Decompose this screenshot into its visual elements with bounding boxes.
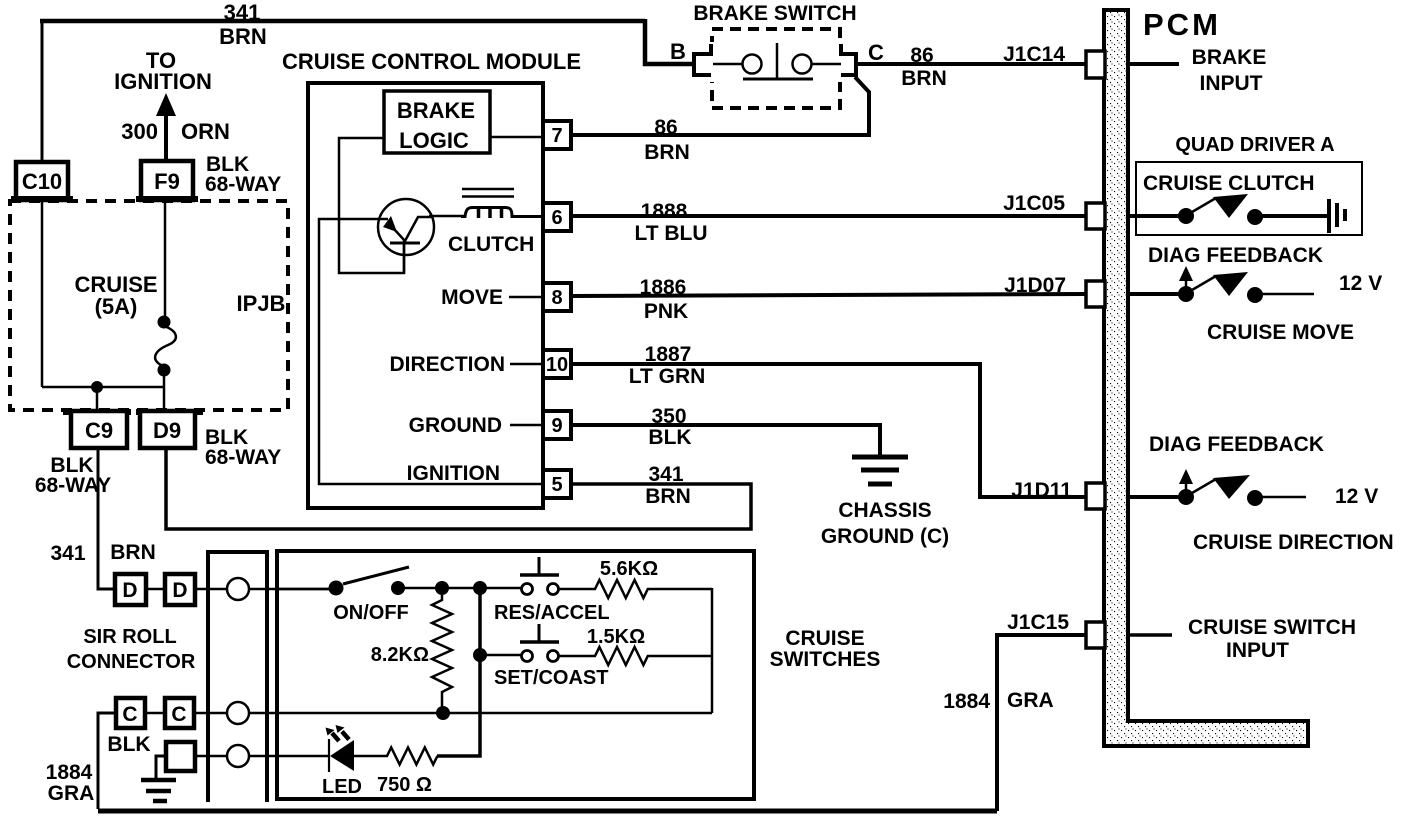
svg-text:1888: 1888 (641, 200, 688, 223)
svg-text:DIAG FEEDBACK: DIAG FEEDBACK (1149, 433, 1324, 456)
svg-text:F9: F9 (154, 169, 180, 194)
pin 5 (407, 462, 571, 498)
svg-text:12 V: 12 V (1335, 485, 1378, 508)
connector C9 (35, 409, 131, 497)
svg-text:750 Ω: 750 Ω (377, 774, 432, 796)
resistor 750 ohm (354, 748, 437, 797)
svg-text:GRA: GRA (1007, 689, 1054, 712)
svg-text:5: 5 (551, 474, 562, 496)
fuse block connector F9 (136, 153, 281, 202)
svg-text:D9: D9 (153, 418, 181, 443)
white gap under C bracket (832, 42, 845, 82)
svg-text:341: 341 (50, 542, 85, 565)
svg-text:PCM: PCM (1143, 7, 1221, 42)
svg-text:5.6KΩ: 5.6KΩ (600, 558, 658, 580)
wire SET branch down to LED row (437, 655, 480, 756)
svg-text:LT BLU: LT BLU (634, 222, 707, 245)
svg-text:MOVE: MOVE (441, 286, 503, 309)
label 1884 GRA bottom left (46, 761, 95, 805)
svg-text:D: D (172, 579, 187, 602)
svg-text:SIR ROLL: SIR ROLL (83, 626, 176, 648)
driver cruise clutch (1128, 194, 1327, 225)
wire 1887 LT GRN pin10 to J1D11 (571, 343, 1086, 502)
node dot at 8.2K top (435, 581, 449, 595)
svg-text:350: 350 (651, 405, 686, 428)
svg-text:6: 6 (551, 207, 562, 229)
svg-text:J1D11: J1D11 (1011, 479, 1072, 502)
svg-text:CRUISE: CRUISE (785, 627, 864, 650)
svg-text:86: 86 (910, 44, 933, 67)
svg-text:CRUISE CLUTCH: CRUISE CLUTCH (1143, 172, 1315, 195)
wire 86 BRN from C to J1C14 (858, 43, 1086, 90)
pin 8 (441, 283, 571, 311)
svg-text:(5A): (5A) (95, 294, 138, 319)
svg-text:9: 9 (551, 415, 562, 437)
node dot at RES branch (473, 581, 487, 595)
connector J1C15 (1086, 622, 1105, 648)
driver cruise direction with diag feedback (1128, 433, 1394, 554)
svg-text:J1C14: J1C14 (1003, 43, 1065, 66)
connector C-C pair (107, 698, 194, 756)
transistor Q1 (378, 199, 434, 273)
wire cruise switch input (1128, 616, 1356, 662)
wire F9 to fuse (164, 200, 167, 318)
quad driver A box (1136, 134, 1362, 235)
pin 7 (543, 121, 571, 149)
svg-text:SWITCHES: SWITCHES (770, 648, 881, 671)
PCM housing bar (1104, 7, 1308, 746)
svg-text:68-WAY: 68-WAY (205, 446, 281, 469)
ground at cruise clutch driver (1329, 199, 1345, 233)
svg-text:GROUND (C): GROUND (C) (821, 525, 949, 548)
resistor 8.2K ohm (371, 595, 452, 711)
wire 86 BRN from C to pin 7 (571, 77, 869, 164)
svg-text:BRAKE: BRAKE (397, 98, 475, 123)
wire brake logic to pin 7 (490, 136, 543, 139)
svg-text:1884: 1884 (46, 761, 93, 784)
node junction above C9 (91, 381, 103, 393)
svg-text:10: 10 (546, 354, 568, 376)
wire brake logic to transistor (339, 138, 404, 273)
connector C10 (11, 162, 73, 202)
wire 350 BLK pin9 to chassis ground (571, 405, 880, 455)
svg-text:IGNITION: IGNITION (114, 69, 212, 94)
svg-text:GROUND: GROUND (409, 414, 502, 437)
svg-text:BRN: BRN (645, 485, 691, 508)
wire 341 BRN C9 down to D-D (50, 448, 155, 589)
wire collector to coil (429, 215, 466, 218)
connector J1D07 (1086, 281, 1105, 307)
svg-text:RES/ACCEL: RES/ACCEL (494, 602, 610, 624)
svg-text:8: 8 (551, 287, 562, 309)
svg-text:QUAD DRIVER A: QUAD DRIVER A (1175, 134, 1334, 156)
svg-text:GRA: GRA (48, 782, 95, 805)
inductor clutch coil (448, 189, 543, 256)
terminal C bracket (841, 40, 884, 75)
wire row1 into box (249, 588, 330, 591)
wire fuse to D9 (163, 374, 166, 411)
svg-text:J1C15: J1C15 (1007, 611, 1069, 634)
svg-text:68-WAY: 68-WAY (35, 474, 111, 497)
wire D to cruise switches (195, 588, 227, 591)
svg-text:IPJB: IPJB (237, 291, 286, 316)
connector J1C14 (1086, 51, 1105, 78)
svg-text:CONNECTOR: CONNECTOR (67, 651, 196, 673)
svg-text:12 V: 12 V (1339, 272, 1382, 295)
switch ON/OFF (277, 567, 521, 624)
pushbutton RES/ACCEL (494, 557, 610, 624)
svg-text:J1D07: J1D07 (1004, 274, 1066, 297)
svg-text:INPUT: INPUT (1226, 639, 1289, 662)
wire 1884 GRA to J1C15 (943, 611, 1086, 811)
svg-text:PNK: PNK (644, 300, 688, 323)
svg-text:341: 341 (648, 463, 683, 486)
switch contacts (713, 43, 841, 79)
svg-text:1.5KΩ: 1.5KΩ (587, 626, 645, 648)
svg-text:1887: 1887 (645, 343, 692, 366)
svg-text:CLUTCH: CLUTCH (448, 233, 534, 256)
svg-text:86: 86 (654, 116, 677, 139)
svg-text:LT GRN: LT GRN (629, 365, 706, 388)
svg-text:CHASSIS: CHASSIS (838, 499, 931, 522)
wire RES branch down to SET (478, 588, 482, 655)
svg-text:SET/COAST: SET/COAST (494, 667, 608, 689)
fuse CRUISE 5A (155, 316, 176, 377)
node dot at 8.2K bottom (436, 706, 450, 720)
connector D9 (136, 409, 281, 469)
ground chassis (C) (821, 457, 949, 548)
svg-text:C9: C9 (85, 418, 113, 443)
node SIR pin circle row 3 (195, 745, 328, 767)
svg-text:BRN: BRN (219, 24, 267, 49)
wire 341 BRN pin5 to D9 (166, 448, 751, 529)
wire 1888 LT BLU pin6 to J1C05 (571, 192, 1086, 245)
node dot at SET branch (473, 648, 487, 662)
wire 1884 GRA bottom bus (98, 809, 997, 814)
svg-text:D: D (122, 579, 137, 602)
svg-text:C: C (122, 703, 137, 726)
terminal B bracket (670, 39, 711, 75)
svg-text:300: 300 (121, 119, 158, 144)
SIR ROLL CONNECTOR (67, 552, 267, 802)
svg-text:1886: 1886 (640, 276, 687, 299)
white gap under B bracket (706, 42, 718, 82)
connector D-D pair (115, 574, 195, 605)
svg-text:C: C (868, 40, 884, 65)
wire C-C row from left (98, 713, 116, 809)
svg-text:BRAKE SWITCH: BRAKE SWITCH (693, 2, 856, 25)
svg-text:BLK: BLK (107, 733, 150, 756)
svg-text:ORN: ORN (181, 119, 230, 144)
LED indicator (322, 725, 362, 798)
wire ignition internal (319, 219, 543, 484)
svg-text:INPUT: INPUT (1200, 72, 1263, 95)
svg-text:341: 341 (224, 0, 261, 25)
svg-text:1884: 1884 (943, 690, 990, 713)
svg-text:68-WAY: 68-WAY (205, 173, 281, 196)
cruise control module box (282, 49, 581, 508)
svg-text:C10: C10 (22, 169, 62, 194)
svg-text:J1C05: J1C05 (1003, 192, 1065, 215)
resistor 5.6K ohm (559, 558, 712, 598)
svg-text:CRUISE MOVE: CRUISE MOVE (1207, 321, 1354, 344)
svg-text:DIRECTION: DIRECTION (390, 353, 506, 376)
svg-text:DIAG FEEDBACK: DIAG FEEDBACK (1148, 244, 1323, 267)
svg-text:CRUISE CONTROL MODULE: CRUISE CONTROL MODULE (282, 49, 581, 74)
brake logic box U1 (384, 91, 490, 153)
connector J1D11 (1086, 483, 1105, 509)
IPJB dashed box (10, 201, 288, 410)
cruise switches box (277, 551, 754, 799)
svg-text:BLK: BLK (648, 426, 691, 449)
node TO IGNITION arrow (114, 48, 230, 162)
svg-text:CRUISE DIRECTION: CRUISE DIRECTION (1193, 531, 1394, 554)
resistor 1.5K ohm (559, 626, 712, 665)
wire brake input (1128, 46, 1266, 95)
connector LED row empty box (156, 742, 195, 779)
node SIR pin circle row 1 (227, 578, 249, 600)
wire C10 to junction (42, 200, 164, 387)
pushbutton SET/COAST (480, 624, 608, 689)
brake switch assembly (693, 2, 856, 108)
svg-text:IGNITION: IGNITION (407, 462, 500, 485)
svg-text:CRUISE SWITCH: CRUISE SWITCH (1188, 616, 1356, 639)
connector J1C05 (1086, 203, 1105, 229)
svg-text:BRN: BRN (110, 541, 156, 564)
svg-text:BRN: BRN (901, 67, 947, 90)
node SIR pin circle row 2 (194, 702, 712, 724)
driver cruise move with diag feedback (1128, 244, 1382, 344)
svg-text:LED: LED (322, 776, 362, 798)
label CRUISE SWITCHES (770, 627, 881, 671)
svg-text:B: B (670, 39, 686, 64)
pin 10 (390, 350, 572, 378)
pin 9 (409, 411, 571, 439)
svg-text:8.2KΩ: 8.2KΩ (371, 644, 429, 666)
svg-text:ON/OFF: ON/OFF (333, 602, 409, 624)
svg-text:7: 7 (551, 125, 562, 147)
wire junction to C9 (96, 387, 99, 411)
pin 6 (543, 203, 571, 231)
svg-text:BRN: BRN (644, 141, 690, 164)
ground chassis at SIR connector (141, 780, 176, 801)
wire 341 BRN top bus from C10 to brake switch B (40, 0, 692, 163)
wire 1886 PNK pin8 to J1D07 (571, 274, 1086, 323)
svg-text:BRAKE: BRAKE (1192, 46, 1267, 69)
svg-text:LOGIC: LOGIC (399, 128, 469, 153)
wire right vertical joining resistors (711, 588, 714, 713)
svg-text:C: C (171, 703, 186, 726)
